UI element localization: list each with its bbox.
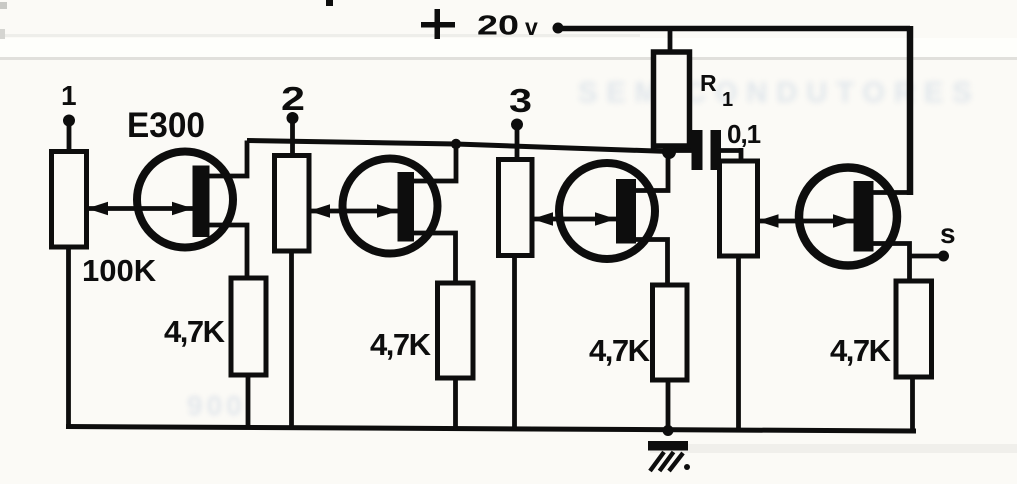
svg-text:s: s: [940, 218, 956, 249]
svg-text:100K: 100K: [82, 253, 157, 288]
svg-text:20: 20: [477, 10, 519, 41]
svg-text:4,7K: 4,7K: [370, 327, 432, 362]
svg-text:3: 3: [509, 82, 532, 119]
svg-text:E300: E300: [127, 106, 205, 145]
svg-text:1: 1: [61, 80, 77, 111]
svg-text:4,7K: 4,7K: [164, 314, 226, 349]
svg-text:4,7K: 4,7K: [830, 333, 892, 368]
svg-text:v: v: [525, 14, 538, 40]
svg-text:4,7K: 4,7K: [589, 333, 651, 368]
svg-text:2: 2: [281, 80, 305, 117]
svg-text:1: 1: [722, 89, 733, 111]
svg-text:R: R: [700, 70, 717, 96]
svg-text:0,1: 0,1: [727, 119, 761, 149]
